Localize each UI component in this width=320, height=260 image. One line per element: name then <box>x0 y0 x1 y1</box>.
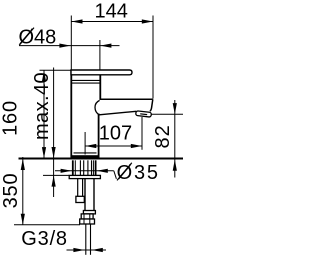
supply hose <box>84 179 86 211</box>
svg-text:82: 82 <box>152 124 174 148</box>
threaded stud <box>77 179 79 197</box>
mounting flange <box>69 175 100 178</box>
dimension 144 line <box>71 19 153 23</box>
dimension 82 line with outside arrows <box>173 100 177 178</box>
extension line aerator underside (82 top) <box>150 113 183 115</box>
extension line Ø48 right <box>99 40 101 72</box>
body base line <box>74 152 97 154</box>
svg-text:G3/8: G3/8 <box>21 228 68 250</box>
spout top edge <box>100 98 153 100</box>
spout root arc <box>95 100 100 114</box>
spout tip front edge <box>150 99 153 111</box>
dimension Ø35 line with outside arrows <box>55 169 116 179</box>
centerline of body <box>84 132 86 155</box>
extension line lever top <box>40 69 71 71</box>
svg-text:350: 350 <box>0 173 22 209</box>
extension line left (back of body, top) <box>70 16 72 70</box>
body front upper edge <box>99 75 101 99</box>
hose nut upper <box>81 214 93 219</box>
hose nut lower <box>80 219 95 224</box>
svg-text:max.40: max.40 <box>31 72 53 140</box>
dimension 160 line <box>42 70 46 158</box>
extension line right (spout tip) <box>152 16 154 99</box>
dimension max.40 line with outside arrows <box>52 68 56 198</box>
svg-text:107: 107 <box>99 123 132 145</box>
dimension G3/8 line with outside arrows <box>67 248 107 252</box>
svg-text:160: 160 <box>0 100 22 136</box>
faucet back edge <box>70 70 72 159</box>
hose nut facets <box>83 214 85 224</box>
spout underside <box>99 111 136 115</box>
hose fitting step <box>83 211 95 214</box>
lever handle <box>71 70 132 75</box>
G3/8 thread stub <box>85 224 87 255</box>
extension line aerator (107 right) <box>141 117 143 150</box>
dimension Ø48 line with outside arrows <box>19 44 120 48</box>
basin deck line <box>19 158 184 160</box>
cartridge ring grooves <box>72 79 101 81</box>
body front lower edge <box>98 114 100 159</box>
dimension 350 line <box>21 157 25 225</box>
extension line deck underside (max.40 bottom) <box>43 174 69 176</box>
extension line hose end <box>14 224 80 226</box>
mounting shank <box>73 160 96 175</box>
body base plate <box>71 155 99 159</box>
stud nut <box>76 196 84 202</box>
aerator <box>136 111 152 117</box>
svg-text:144: 144 <box>95 0 128 22</box>
dimension 107 line <box>85 144 142 148</box>
